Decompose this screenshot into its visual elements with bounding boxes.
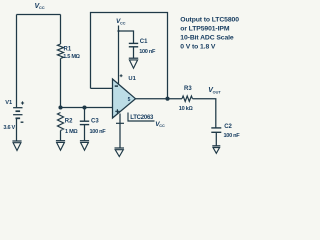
svg-text:100 nF: 100 nF: [224, 133, 241, 139]
svg-text:LTC2063: LTC2063: [130, 115, 154, 121]
svg-text:10 kΩ: 10 kΩ: [179, 106, 194, 112]
svg-text:Output to LTC5800: Output to LTC5800: [180, 16, 239, 23]
svg-text:1.5 MΩ: 1.5 MΩ: [63, 54, 80, 60]
svg-text:C3: C3: [91, 118, 99, 124]
svg-text:CC: CC: [120, 21, 126, 25]
svg-text:1 MΩ: 1 MΩ: [65, 129, 78, 135]
svg-text:R1: R1: [64, 46, 72, 52]
svg-text:10-Bit ADC Scale: 10-Bit ADC Scale: [180, 35, 234, 42]
svg-text:3.6 V: 3.6 V: [3, 125, 15, 131]
svg-text:V1: V1: [5, 100, 12, 106]
svg-text:100 nF: 100 nF: [139, 49, 156, 55]
svg-text:R2: R2: [65, 118, 73, 124]
svg-text:C1: C1: [140, 39, 148, 45]
svg-text:5: 5: [128, 97, 131, 103]
svg-text:R3: R3: [184, 86, 192, 92]
svg-text:C2: C2: [224, 124, 232, 130]
svg-text:100 nF: 100 nF: [90, 129, 107, 135]
svg-text:or LTP5901-IPM: or LTP5901-IPM: [180, 26, 230, 33]
svg-text:CC: CC: [159, 124, 165, 128]
svg-text:0 V to 1.8 V: 0 V to 1.8 V: [180, 44, 216, 51]
svg-text:OUT: OUT: [213, 90, 222, 94]
svg-text:CC: CC: [39, 5, 45, 10]
svg-text:U1: U1: [128, 76, 136, 82]
